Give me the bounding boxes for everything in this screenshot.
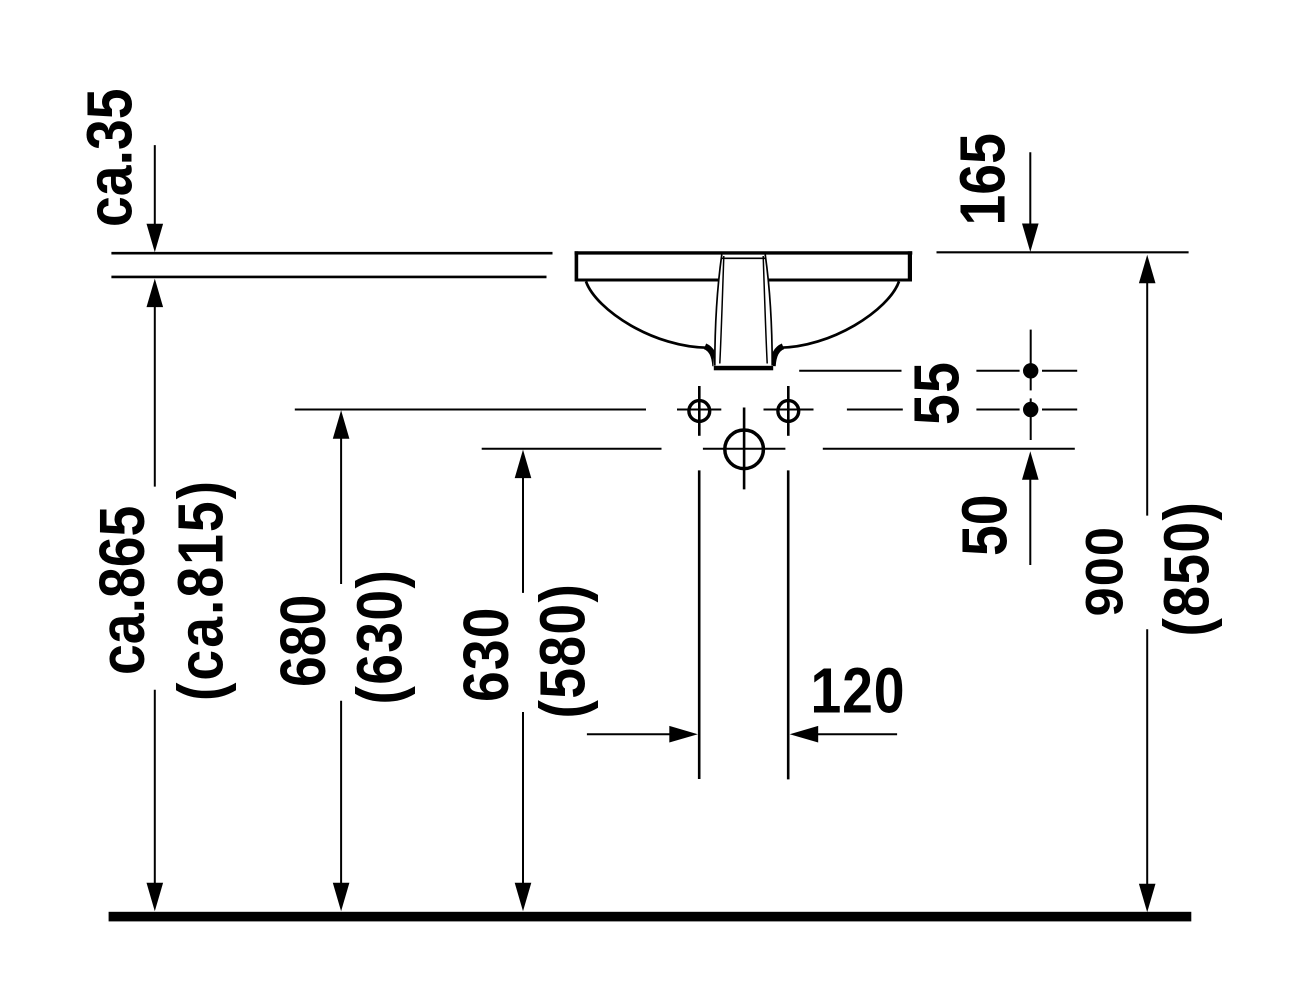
svg-text:900: 900 [1076, 526, 1135, 617]
svg-text:120: 120 [811, 655, 906, 727]
svg-text:680: 680 [267, 595, 339, 687]
svg-text:55: 55 [901, 361, 973, 425]
svg-text:50: 50 [949, 494, 1021, 556]
svg-text:630: 630 [450, 607, 522, 702]
svg-text:ca.35: ca.35 [74, 88, 146, 227]
svg-text:(630): (630) [344, 569, 416, 705]
svg-text:ca.865: ca.865 [86, 506, 158, 675]
svg-text:165: 165 [947, 133, 1019, 225]
svg-text:(850): (850) [1151, 501, 1223, 637]
svg-text:(ca.815): (ca.815) [165, 479, 237, 701]
svg-text:(580): (580) [527, 583, 599, 719]
